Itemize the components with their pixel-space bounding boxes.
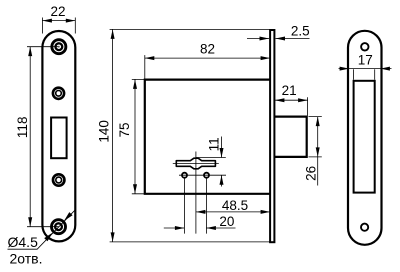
dim 2.5 line left xyxy=(247,38,269,40)
dim 22 line xyxy=(42,20,75,22)
faceplate edge strip xyxy=(270,30,274,242)
dim 2.5 arrows xyxy=(260,37,270,41)
svg-text:22: 22 xyxy=(50,4,65,19)
dim 17 arrows xyxy=(340,67,350,71)
dim 118 line xyxy=(29,47,31,227)
top screw hole inner xyxy=(55,43,62,50)
strike top screw hole xyxy=(361,43,368,50)
dim 21 extension line xyxy=(307,97,309,115)
dim 75 extension lines xyxy=(132,79,144,193)
bar horizontal centerline xyxy=(173,163,219,165)
bottom screw hole inner xyxy=(55,223,62,230)
dim 26 line xyxy=(317,117,319,186)
fixing screw hole right xyxy=(204,173,209,178)
dim 17 extension lines xyxy=(354,69,375,80)
middle hole lower xyxy=(53,174,64,185)
svg-text:20: 20 xyxy=(219,214,234,229)
fixing screw hole left xyxy=(182,173,187,178)
svg-text:11: 11 xyxy=(206,137,221,151)
svg-text:82: 82 xyxy=(200,41,215,56)
dim 118 arrows xyxy=(28,47,32,57)
middle hole upper xyxy=(53,88,64,99)
dim 2.5 line right xyxy=(276,38,310,40)
svg-text:21: 21 xyxy=(282,83,297,98)
dim 26 arrows xyxy=(316,117,320,127)
dim 82 extension line xyxy=(144,55,146,79)
follower bar with hub xyxy=(176,158,215,169)
svg-text:48.5: 48.5 xyxy=(222,198,248,213)
dim 82 arrows xyxy=(145,56,155,60)
dim 26 extension lines xyxy=(309,117,322,157)
dim 48.5 line xyxy=(196,211,270,213)
strike plate outline xyxy=(348,31,382,245)
vertical centerline xyxy=(195,152,197,234)
horizontal line through fixing holes xyxy=(179,174,226,176)
diameter arrowhead upper-right xyxy=(64,212,73,221)
leader shelf for hole callout xyxy=(8,210,76,250)
dim 21 arrows xyxy=(275,98,285,102)
dim 22 arrows xyxy=(42,19,52,23)
dim 140 arrows xyxy=(111,29,115,39)
svg-text:2отв.: 2отв. xyxy=(10,251,43,267)
extension line below right hole xyxy=(205,178,207,234)
dim 22 extension lines xyxy=(42,18,75,34)
dim 11 extension line top xyxy=(196,157,226,159)
dim 20 line right xyxy=(206,227,235,229)
dim 140 extension lines xyxy=(110,29,271,242)
strike bottom screw hole xyxy=(361,224,368,231)
dim 118 extension lines xyxy=(27,47,59,227)
strike slot cutout xyxy=(354,81,375,193)
extension line below left hole xyxy=(183,178,185,234)
dim 48.5 arrows xyxy=(196,210,206,214)
dim 140 line xyxy=(112,29,114,242)
bolt cutout rectangle xyxy=(51,118,67,159)
dim 82 line xyxy=(145,57,270,59)
dim 17 line xyxy=(339,68,392,70)
diameter arrowhead lower-left xyxy=(44,233,53,242)
svg-text:2.5: 2.5 xyxy=(291,24,310,39)
dim 75 arrows xyxy=(133,79,137,89)
dim 11 line xyxy=(221,137,223,187)
bolt protruding xyxy=(274,117,306,157)
faceplate outline xyxy=(42,31,75,241)
svg-text:26: 26 xyxy=(303,166,318,181)
svg-text:140: 140 xyxy=(97,120,112,143)
dim 21 line xyxy=(275,99,308,101)
top screw hole outer xyxy=(52,40,66,54)
bottom screw hole outer xyxy=(52,220,66,234)
svg-text:75: 75 xyxy=(117,122,132,137)
lock body outline xyxy=(145,80,270,194)
svg-text:17: 17 xyxy=(358,53,373,68)
svg-text:118: 118 xyxy=(15,117,30,139)
dim 75 line xyxy=(134,79,136,193)
dim 20 line left xyxy=(164,227,185,229)
svg-text:Ø4.5: Ø4.5 xyxy=(8,234,39,250)
top screw hole center mark xyxy=(58,46,60,48)
dim 20 arrows xyxy=(175,226,185,230)
dim 11 arrows xyxy=(220,148,224,158)
